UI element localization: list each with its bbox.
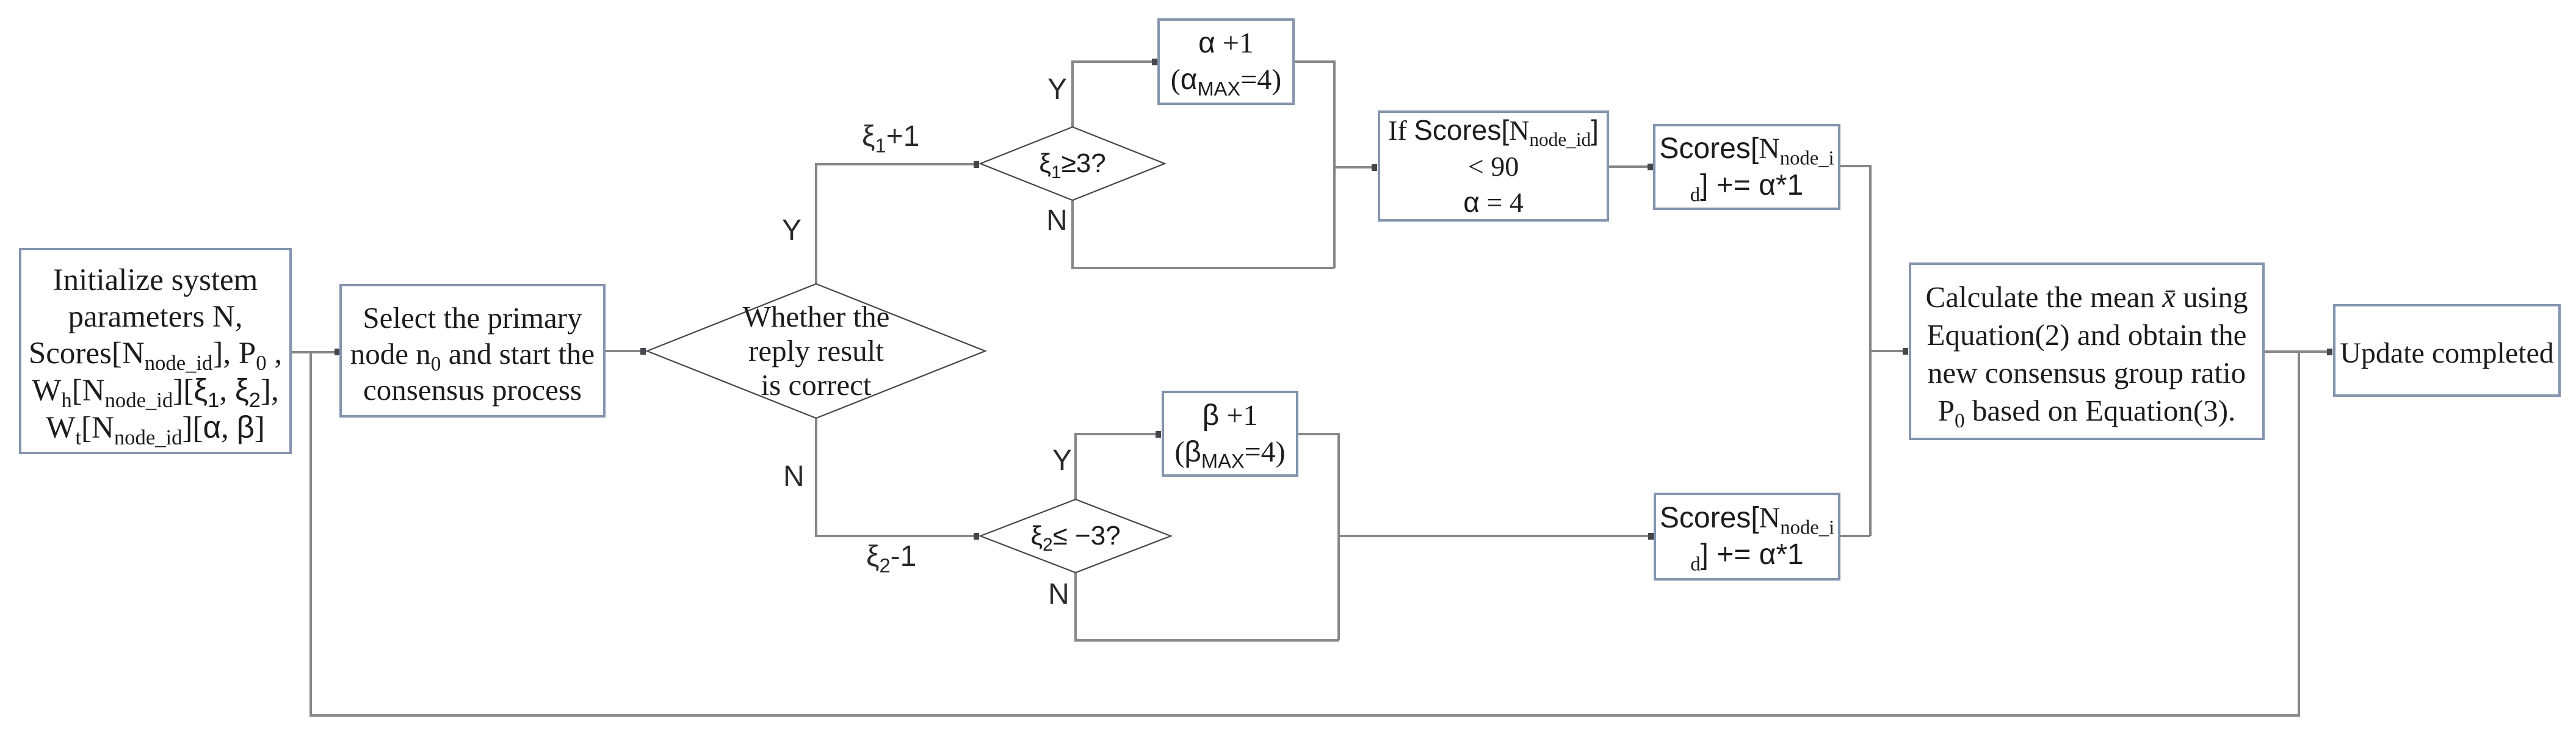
box Update completed <box>2333 304 2561 397</box>
label N below D1 <box>783 460 805 493</box>
box lower Scores update <box>1654 493 1840 581</box>
box Calculate the mean <box>1909 262 2265 440</box>
box beta plus one <box>1162 391 1298 477</box>
wire box1 to box2 <box>292 351 337 353</box>
diamond D3 xi2<=-3? <box>980 499 1171 573</box>
label xi2 minus 1 <box>866 540 916 573</box>
arrowhead into lower Scores box <box>1648 533 1654 540</box>
wire box alpha right exit <box>1295 62 1334 268</box>
wire junction to lower Scores box <box>1339 535 1649 537</box>
wire feedback bottom horizontal <box>309 714 2299 717</box>
diamond text D1 <box>684 287 949 415</box>
arrowhead into D1 <box>640 348 646 355</box>
box Select the primary node <box>339 284 606 418</box>
wire D2 top Y path to box alpha <box>1073 62 1154 127</box>
wire feedback left vertical <box>309 352 312 715</box>
wire If box to upper Scores box <box>1609 165 1649 168</box>
arrowhead into upper Scores box <box>1648 164 1653 170</box>
wire Calculate to Update box <box>2265 350 2329 353</box>
arrowhead into Calculate box <box>1903 348 1908 355</box>
label Y above D3 <box>1052 444 1072 477</box>
arrowhead into Update box <box>2327 349 2332 355</box>
wire D1 bottom N path to diamond D3 <box>816 418 975 536</box>
wire box beta right exit <box>1298 434 1339 640</box>
label N below D3 <box>1048 577 1069 611</box>
wire D3 bottom N bypass <box>1076 573 1339 640</box>
diamond text D3 <box>995 518 1156 554</box>
wire junction to Calculate box <box>1870 350 1905 352</box>
wire D1 top Y path to diamond D2 <box>816 164 975 284</box>
box Initialize system parameters <box>19 248 292 454</box>
box If Scores less than 90 <box>1378 110 1609 222</box>
diamond D1 Whether the reply result is correct <box>647 284 985 418</box>
arrowhead into If box <box>1372 164 1377 171</box>
arrowhead into box alpha <box>1152 59 1157 65</box>
wire feedback right vertical <box>2298 352 2300 717</box>
arrowhead into box2 <box>335 349 340 355</box>
wire D3 top Y path to box beta <box>1076 434 1157 499</box>
arrowhead into box beta <box>1156 431 1161 438</box>
label xi1 plus 1 <box>862 120 919 153</box>
box upper Scores update <box>1653 124 1840 210</box>
label Y above D2 <box>1047 73 1067 106</box>
wire D2 bottom N bypass <box>1073 200 1334 268</box>
label Y above D1 <box>782 214 801 247</box>
wire box2 to diamond D1 <box>606 350 642 352</box>
wire upper Scores right exit down <box>1840 166 1870 536</box>
wire lower Scores right exit <box>1840 535 1870 537</box>
arrowhead into D3 <box>974 533 979 540</box>
wire junction to If box <box>1334 166 1373 168</box>
diamond text D2 <box>995 145 1150 182</box>
box alpha plus one <box>1157 18 1295 105</box>
arrowhead into D2 <box>974 161 979 168</box>
label N below D2 <box>1046 204 1068 237</box>
diamond D2 xi1>=3? <box>980 127 1165 200</box>
